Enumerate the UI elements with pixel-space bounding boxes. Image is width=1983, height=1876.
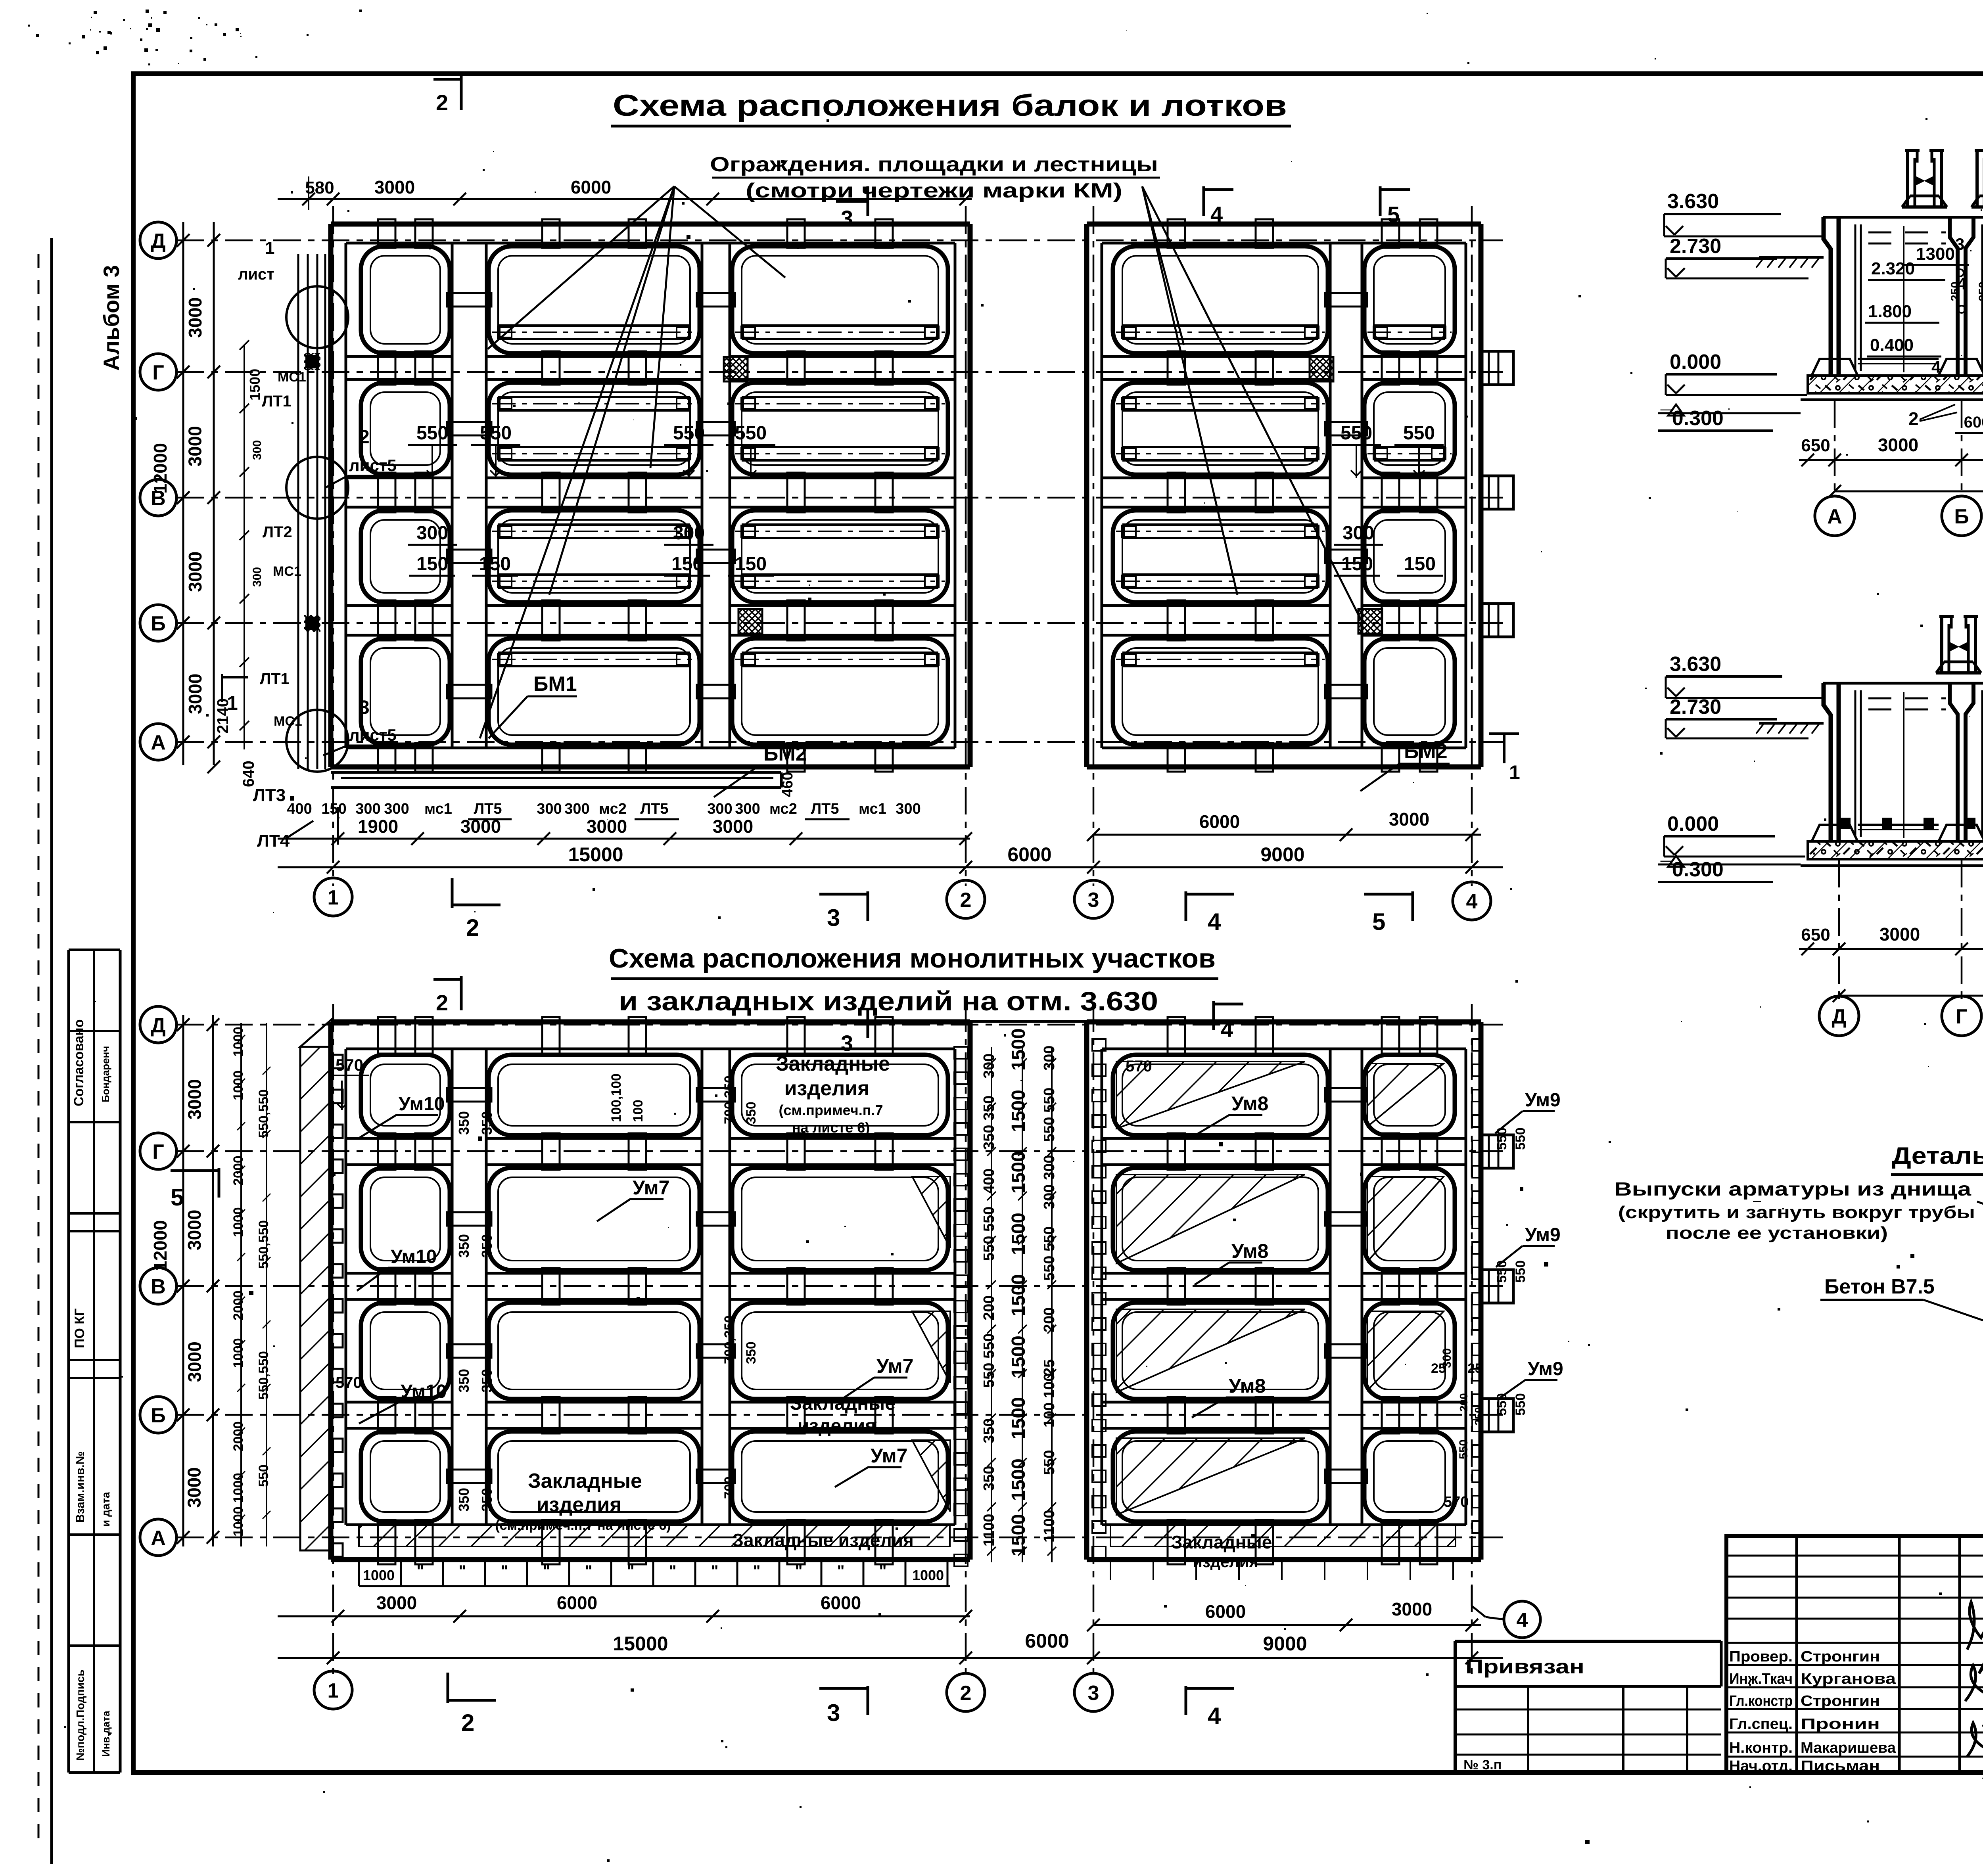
- svg-text:300: 300: [896, 801, 921, 817]
- svg-text:ЛТ5: ЛТ5: [474, 801, 502, 817]
- svg-text:Г: Г: [152, 361, 164, 384]
- svg-text:4: 4: [1208, 1703, 1221, 1729]
- svg-text:3.630: 3.630: [1670, 653, 1721, 676]
- svg-text:": ": [585, 1562, 593, 1580]
- svg-text:550: 550: [416, 423, 448, 444]
- svg-text:1300: 1300: [1916, 244, 1955, 264]
- svg-text:550: 550: [673, 423, 705, 444]
- svg-text:Ум7: Ум7: [633, 1177, 669, 1199]
- svg-text:Г: Г: [152, 1140, 164, 1163]
- svg-text:350: 350: [981, 1418, 997, 1443]
- svg-text:3: 3: [841, 206, 853, 231]
- svg-text:550,550: 550,550: [256, 1220, 271, 1269]
- svg-text:1100: 1100: [1041, 1510, 1058, 1543]
- svg-text:2: 2: [461, 1709, 474, 1736]
- svg-text:100,100: 100,100: [609, 1073, 624, 1122]
- svg-text:4: 4: [1210, 202, 1223, 227]
- svg-text:550: 550: [1403, 423, 1435, 444]
- svg-text:": ": [753, 1562, 761, 1580]
- svg-text:после ее установки): после ее установки): [1666, 1223, 1888, 1243]
- svg-text:1500: 1500: [247, 369, 263, 400]
- svg-text:1: 1: [1509, 761, 1520, 784]
- svg-text:Ум9: Ум9: [1525, 1224, 1561, 1246]
- svg-text:мс1: мс1: [859, 801, 886, 817]
- svg-text:15000: 15000: [568, 843, 623, 866]
- svg-text:1000: 1000: [363, 1567, 395, 1583]
- svg-text:300: 300: [1041, 1046, 1058, 1071]
- svg-text:350: 350: [981, 1466, 997, 1491]
- svg-text:1500: 1500: [1008, 1151, 1029, 1194]
- svg-text:350: 350: [456, 1234, 472, 1258]
- svg-text:3000: 3000: [185, 297, 205, 338]
- svg-text:Курганова: Курганова: [1801, 1671, 1896, 1687]
- svg-text:300: 300: [1342, 523, 1374, 544]
- svg-text:2: 2: [466, 914, 479, 941]
- svg-text:Ум10: Ум10: [399, 1094, 445, 1115]
- svg-text:и дата: и дата: [100, 1492, 112, 1527]
- svg-text:": ": [627, 1562, 635, 1580]
- svg-text:550: 550: [1494, 1393, 1509, 1416]
- svg-text:350: 350: [744, 1341, 759, 1364]
- svg-text:550: 550: [1457, 1439, 1470, 1459]
- svg-text:1500: 1500: [1008, 1028, 1029, 1071]
- svg-text:¯0.300: ¯0.300: [1660, 858, 1724, 881]
- svg-text:6000: 6000: [571, 177, 611, 197]
- svg-text:300 300: 300 300: [1041, 1155, 1058, 1209]
- svg-text:Провер.: Провер.: [1729, 1648, 1793, 1665]
- svg-text:700,350: 700,350: [722, 1075, 737, 1124]
- svg-text:6000: 6000: [1199, 811, 1240, 832]
- svg-text:300: 300: [384, 801, 409, 817]
- svg-text:Ум10: Ум10: [401, 1381, 447, 1402]
- svg-text:ЛТ2: ЛТ2: [263, 523, 292, 541]
- svg-text:3000: 3000: [184, 1079, 205, 1119]
- svg-text:150: 150: [1341, 554, 1373, 575]
- svg-text:150: 150: [479, 554, 511, 575]
- svg-text:4: 4: [1517, 1609, 1528, 1632]
- svg-text:3000: 3000: [1389, 809, 1429, 830]
- svg-text:МС1: МС1: [278, 370, 306, 385]
- svg-text:Письман: Письман: [1801, 1758, 1880, 1774]
- svg-text:на листе 6): на листе 6): [792, 1119, 870, 1136]
- svg-text:4: 4: [1221, 1017, 1233, 1042]
- svg-text:3000: 3000: [460, 816, 501, 837]
- svg-text:": ": [837, 1562, 845, 1580]
- svg-text:350: 350: [479, 1488, 495, 1512]
- svg-text:350: 350: [479, 1369, 495, 1393]
- svg-text:1500: 1500: [1008, 1458, 1029, 1501]
- svg-text:4: 4: [1957, 274, 1967, 293]
- svg-text:0.400: 0.400: [1870, 335, 1914, 355]
- svg-text:¯0.300: ¯0.300: [1660, 407, 1724, 430]
- svg-text:А: А: [151, 731, 166, 754]
- svg-text:изделия: изделия: [784, 1077, 869, 1100]
- svg-text:200: 200: [1458, 1393, 1470, 1412]
- svg-text:300: 300: [355, 801, 380, 817]
- svg-text:ЛТ5: ЛТ5: [640, 801, 668, 817]
- svg-text:": ": [459, 1562, 466, 1580]
- svg-text:3: 3: [827, 904, 840, 931]
- svg-text:1500: 1500: [1008, 1336, 1029, 1378]
- svg-text:300: 300: [735, 801, 760, 817]
- svg-text:Ум10: Ум10: [391, 1246, 437, 1267]
- svg-text:2: 2: [960, 889, 972, 912]
- svg-text:550 550: 550 550: [981, 1207, 997, 1261]
- svg-text:": ": [669, 1562, 677, 1580]
- svg-text:3000: 3000: [184, 1210, 205, 1250]
- svg-text:350: 350: [456, 1369, 472, 1393]
- svg-text:550 550: 550 550: [1041, 1226, 1058, 1281]
- svg-text:550,550: 550,550: [256, 1089, 271, 1138]
- svg-text:Пронин: Пронин: [1801, 1716, 1880, 1732]
- svg-text:1500: 1500: [1008, 1213, 1029, 1255]
- svg-text:570: 570: [1444, 1494, 1469, 1510]
- svg-text:": ": [543, 1562, 550, 1580]
- svg-text:Закладные: Закладные: [790, 1393, 896, 1414]
- svg-text:250: 250: [1977, 282, 1983, 301]
- svg-text:изделия: изделия: [1193, 1553, 1258, 1571]
- svg-text:150: 150: [416, 554, 448, 575]
- svg-text:550: 550: [1513, 1393, 1528, 1416]
- svg-text:550: 550: [735, 423, 767, 444]
- svg-text:3: 3: [827, 1700, 840, 1726]
- svg-text:1100: 1100: [981, 1514, 997, 1546]
- svg-text:3000: 3000: [587, 816, 627, 837]
- svg-text:": ": [711, 1562, 719, 1580]
- svg-text:350: 350: [456, 1488, 472, 1512]
- svg-text:300: 300: [1440, 1348, 1454, 1368]
- svg-text:9000: 9000: [1260, 843, 1304, 866]
- svg-text:Нач.отд.: Нач.отд.: [1729, 1758, 1793, 1774]
- svg-text:6000: 6000: [1025, 1630, 1069, 1652]
- svg-text:150: 150: [671, 554, 703, 575]
- svg-text:Схема расположения монолитных: Схема расположения монолитных участков: [609, 943, 1216, 973]
- svg-text:550: 550: [1494, 1260, 1509, 1283]
- svg-text:мс1: мс1: [424, 801, 452, 817]
- svg-text:550: 550: [256, 1464, 271, 1487]
- svg-text:550 550: 550 550: [981, 1334, 997, 1388]
- svg-text:100 100: 100 100: [1041, 1373, 1058, 1428]
- svg-text:6000: 6000: [1205, 1601, 1246, 1622]
- svg-text:Ограждения. площадки и лестниц: Ограждения. площадки и лестницы: [710, 153, 1158, 176]
- svg-text:Закладные изделия: Закладные изделия: [732, 1530, 914, 1550]
- svg-text:2: 2: [1908, 408, 1919, 429]
- svg-text:(см.примеч.п.7 на листе 6): (см.примеч.п.7 на листе 6): [495, 1518, 671, 1533]
- svg-text:Альбом 3: Альбом 3: [99, 265, 124, 371]
- svg-text:1: 1: [265, 238, 274, 258]
- svg-text:ЛТ1: ЛТ1: [260, 670, 290, 688]
- svg-text:2.320: 2.320: [1871, 259, 1915, 278]
- svg-text:Д: Д: [151, 1014, 165, 1037]
- svg-text:3: 3: [1088, 1682, 1099, 1705]
- svg-text:Ум8: Ум8: [1231, 1092, 1268, 1115]
- svg-text:Гл.констр: Гл.констр: [1729, 1693, 1793, 1709]
- svg-text:3: 3: [1088, 889, 1099, 912]
- svg-text:300: 300: [251, 567, 264, 587]
- svg-text:Закладные: Закладные: [528, 1470, 642, 1493]
- svg-text:(см.примеч.п.7: (см.примеч.п.7: [779, 1102, 883, 1118]
- svg-text:1: 1: [227, 692, 238, 714]
- svg-text:1900: 1900: [358, 816, 398, 837]
- svg-text:2.730: 2.730: [1670, 235, 1721, 258]
- svg-text:9000: 9000: [1263, 1633, 1307, 1655]
- svg-text:Бондаренч: Бондаренч: [100, 1046, 111, 1102]
- svg-text:350: 350: [744, 1102, 759, 1124]
- svg-text:550,550: 550,550: [256, 1351, 271, 1400]
- svg-text:2000: 2000: [231, 1155, 246, 1186]
- svg-text:2: 2: [359, 427, 370, 448]
- svg-text:": ": [879, 1562, 887, 1580]
- svg-text:2.730: 2.730: [1670, 696, 1721, 719]
- svg-text:550: 550: [1341, 423, 1372, 444]
- svg-text:Привязан: Привязан: [1465, 1656, 1584, 1678]
- svg-text:300: 300: [673, 523, 705, 544]
- svg-text:600: 600: [1964, 414, 1983, 431]
- svg-text:550: 550: [480, 423, 512, 444]
- svg-text:1: 1: [328, 1679, 339, 1702]
- svg-text:0.000: 0.000: [1670, 351, 1721, 374]
- svg-text:Ум9: Ум9: [1528, 1359, 1563, 1380]
- svg-text:350: 350: [479, 1234, 495, 1258]
- svg-text:Деталь крепления фильтросных т: Деталь крепления фильтросных труб: [1892, 1142, 1983, 1169]
- svg-text:ЛТ4: ЛТ4: [257, 831, 290, 851]
- svg-text:БМ1: БМ1: [533, 673, 577, 696]
- svg-text:Макаришева: Макаришева: [1801, 1740, 1896, 1756]
- svg-text:Ум8: Ум8: [1229, 1375, 1266, 1397]
- svg-text:В: В: [151, 1275, 166, 1298]
- svg-text:Инж.Ткач: Инж.Ткач: [1729, 1671, 1793, 1687]
- svg-text:мс2: мс2: [769, 801, 797, 817]
- svg-text:Схема расположения балок и лот: Схема расположения балок и лотков: [613, 89, 1287, 123]
- svg-text:650: 650: [1801, 436, 1830, 455]
- svg-text:лист5: лист5: [349, 726, 397, 744]
- svg-text:Взам.инв.№: Взам.инв.№: [74, 1451, 87, 1523]
- svg-text:Д: Д: [1831, 1005, 1846, 1028]
- svg-text:4: 4: [1466, 890, 1478, 913]
- svg-text:3000: 3000: [713, 816, 753, 837]
- svg-text:2: 2: [436, 990, 448, 1015]
- svg-text:1500: 1500: [1008, 1397, 1029, 1439]
- svg-text:3000: 3000: [1878, 435, 1918, 455]
- svg-text:Стронгин: Стронгин: [1801, 1648, 1880, 1665]
- svg-text:А: А: [1827, 505, 1842, 528]
- svg-text:150: 150: [1404, 554, 1436, 575]
- svg-text:150: 150: [735, 554, 767, 575]
- svg-text:Согласовано: Согласовано: [71, 1019, 86, 1107]
- svg-text:3: 3: [1955, 235, 1964, 253]
- svg-text:Выпуски арматуры из днища: Выпуски арматуры из днища: [1614, 1179, 1971, 1200]
- svg-text:3000: 3000: [184, 1341, 205, 1382]
- svg-text:Г: Г: [1956, 1005, 1967, 1028]
- svg-text:2000: 2000: [231, 1421, 246, 1451]
- svg-text:570: 570: [1126, 1058, 1152, 1075]
- svg-text:лист5: лист5: [349, 456, 397, 475]
- svg-text:": ": [417, 1562, 424, 1580]
- svg-text:ЛТ3: ЛТ3: [253, 786, 286, 805]
- svg-text:100: 100: [631, 1100, 646, 1122]
- svg-text:1.800: 1.800: [1868, 302, 1912, 321]
- svg-text:4: 4: [1931, 358, 1941, 376]
- svg-text:3: 3: [359, 697, 370, 718]
- svg-text:5: 5: [1372, 908, 1385, 935]
- svg-text:2: 2: [960, 1682, 972, 1705]
- svg-text:6000: 6000: [821, 1592, 861, 1613]
- svg-text:3.630: 3.630: [1667, 190, 1719, 213]
- svg-text:изделия: изделия: [798, 1416, 876, 1437]
- svg-text:3000: 3000: [185, 552, 205, 592]
- svg-text:Ум7: Ум7: [876, 1355, 913, 1377]
- svg-text:550: 550: [1041, 1450, 1058, 1475]
- svg-text:Б: Б: [151, 612, 165, 635]
- svg-text:15000: 15000: [613, 1633, 668, 1655]
- svg-text:Б: Б: [1954, 505, 1969, 528]
- svg-text:ЛТ5: ЛТ5: [811, 801, 839, 817]
- svg-text:5: 5: [1387, 202, 1400, 227]
- svg-text:650: 650: [1801, 925, 1830, 945]
- svg-text:300: 300: [251, 440, 264, 460]
- svg-text:300: 300: [416, 523, 448, 544]
- svg-text:350: 350: [479, 1111, 495, 1135]
- svg-text:6000: 6000: [1007, 843, 1051, 866]
- svg-text:3000: 3000: [1879, 924, 1920, 945]
- svg-text:400: 400: [981, 1169, 997, 1194]
- svg-text:Закладные: Закладные: [776, 1052, 890, 1075]
- svg-text:300: 300: [564, 801, 589, 817]
- svg-text:МС1: МС1: [274, 714, 302, 729]
- svg-text:550: 550: [1513, 1127, 1528, 1150]
- svg-text:570: 570: [336, 1374, 362, 1391]
- svg-text:300: 300: [537, 801, 562, 817]
- svg-text:570: 570: [336, 1056, 363, 1074]
- svg-text:3000: 3000: [1392, 1599, 1432, 1619]
- svg-text:200: 200: [1041, 1307, 1058, 1332]
- svg-text:250: 250: [1473, 1407, 1485, 1426]
- svg-text:550: 550: [1513, 1260, 1528, 1283]
- svg-text:изделия: изделия: [536, 1493, 621, 1516]
- svg-text:Н.контр.: Н.контр.: [1729, 1740, 1793, 1756]
- svg-text:1000: 1000: [912, 1567, 944, 1583]
- svg-text:2000: 2000: [231, 1290, 246, 1320]
- svg-text:700,350: 700,350: [722, 1315, 737, 1364]
- svg-text:А: А: [151, 1527, 166, 1550]
- svg-text:ЛТ1: ЛТ1: [262, 393, 292, 410]
- svg-text:640: 640: [240, 761, 257, 787]
- svg-text:4: 4: [1208, 908, 1221, 935]
- svg-text:300: 300: [707, 801, 732, 817]
- svg-text:лист: лист: [238, 266, 274, 283]
- svg-text:3000: 3000: [185, 674, 205, 714]
- svg-text:5: 5: [171, 1184, 184, 1211]
- svg-text:460: 460: [779, 772, 796, 797]
- svg-text:6000: 6000: [557, 1592, 597, 1613]
- svg-text:1: 1: [328, 886, 339, 909]
- svg-text:580: 580: [305, 178, 334, 197]
- svg-text:400: 400: [287, 801, 312, 817]
- svg-text:Закладные: Закладные: [1171, 1532, 1272, 1552]
- svg-text:550: 550: [1494, 1127, 1509, 1150]
- svg-text:Гл.спец.: Гл.спец.: [1729, 1716, 1793, 1732]
- svg-text:мс2: мс2: [599, 801, 627, 817]
- svg-text:Д: Д: [151, 230, 165, 253]
- svg-text:350: 350: [456, 1111, 472, 1135]
- svg-text:150: 150: [321, 801, 346, 817]
- svg-text:2: 2: [436, 90, 448, 115]
- svg-text:3000: 3000: [374, 177, 415, 197]
- svg-text:12000: 12000: [150, 443, 171, 494]
- svg-text:3000: 3000: [185, 426, 205, 466]
- svg-text:№подл.Подпись: №подл.Подпись: [74, 1669, 86, 1761]
- svg-text:1500: 1500: [1008, 1514, 1029, 1556]
- svg-text:Стронгин: Стронгин: [1801, 1693, 1880, 1709]
- svg-text:БМ2: БМ2: [763, 742, 807, 765]
- svg-text:": ": [795, 1562, 803, 1580]
- svg-text:№ 3.п: № 3.п: [1463, 1757, 1502, 1773]
- svg-text:3000: 3000: [376, 1592, 417, 1613]
- svg-text:(скрутить и загнуть вокруг тру: (скрутить и загнуть вокруг трубы: [1618, 1203, 1975, 1222]
- svg-text:ПО КГ: ПО КГ: [72, 1309, 87, 1348]
- svg-text:Б: Б: [151, 1404, 165, 1427]
- svg-text:Бетон В7.5: Бетон В7.5: [1824, 1275, 1935, 1298]
- svg-text:12000: 12000: [150, 1220, 171, 1271]
- svg-text:МС1: МС1: [273, 564, 301, 579]
- svg-text:700: 700: [722, 1476, 737, 1499]
- svg-text:Ум7: Ум7: [871, 1445, 907, 1467]
- svg-text:и закладных изделий на отм. 3.: и закладных изделий на отм. 3.630: [619, 986, 1158, 1016]
- svg-text:Ум9: Ум9: [1525, 1090, 1561, 1111]
- svg-text:200: 200: [981, 1295, 997, 1320]
- svg-text:Ум8: Ум8: [1231, 1240, 1268, 1262]
- svg-text:": ": [501, 1562, 508, 1580]
- svg-text:БМ2: БМ2: [1404, 740, 1448, 763]
- svg-text:25: 25: [1467, 1361, 1482, 1376]
- svg-text:550 550: 550 550: [1041, 1088, 1058, 1142]
- svg-text:3000: 3000: [184, 1467, 205, 1508]
- svg-text:0.000: 0.000: [1667, 812, 1719, 835]
- svg-text:3: 3: [841, 1031, 853, 1056]
